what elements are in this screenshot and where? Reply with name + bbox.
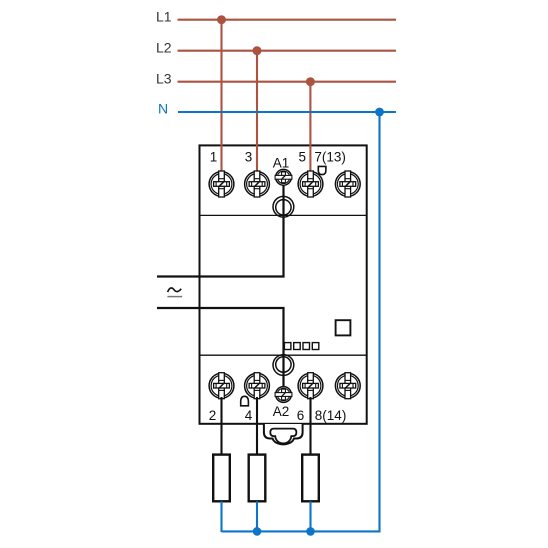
- DIN rail clip: [264, 424, 303, 444]
- wire coil A1: [157, 177, 284, 277]
- wire L1 to terminal 1: [220, 20, 222, 176]
- wire N: [178, 111, 396, 113]
- wire L1: [178, 19, 397, 21]
- load R1: [213, 455, 230, 502]
- wire N down right side to bottom rail: [222, 112, 380, 531]
- terminal A2: [275, 387, 292, 403]
- terminal 3: [245, 171, 270, 197]
- wire L3 to terminal 5: [309, 82, 311, 176]
- terminal 1: [209, 171, 234, 197]
- divider line lower: [200, 354, 367, 356]
- wire L3: [178, 81, 397, 83]
- marker flag top (NO contact symbol): [318, 166, 326, 174]
- wire terminal 4 to load R2: [256, 397, 258, 455]
- svg-text:N: N: [158, 101, 168, 117]
- wire load R2 to N rail: [256, 501, 258, 531]
- terminal 5: [298, 171, 323, 197]
- terminal 4: [245, 373, 270, 399]
- coil circle lower: [273, 355, 294, 376]
- svg-text:A1: A1: [273, 155, 290, 170]
- svg-text:L3: L3: [156, 71, 172, 87]
- coil circle upper: [273, 196, 294, 217]
- svg-text:5: 5: [299, 150, 307, 165]
- terminal 7(13): [335, 171, 360, 197]
- svg-text:6: 6: [297, 408, 305, 423]
- wire L2: [178, 50, 397, 52]
- junction R3 on N rail: [306, 527, 315, 536]
- wire L2 to terminal 3: [256, 51, 258, 176]
- marker flag bottom (NO contact symbol): [241, 396, 249, 406]
- terminal 8(14): [335, 373, 360, 399]
- svg-text:8(14): 8(14): [315, 408, 347, 423]
- wire terminal 2 to load R1: [220, 397, 222, 455]
- svg-text:3: 3: [245, 150, 253, 165]
- switch position window: [336, 320, 351, 335]
- terminal A1: [275, 169, 292, 185]
- junction on L3: [306, 77, 315, 86]
- load R2: [249, 455, 266, 502]
- svg-text:A2: A2: [273, 404, 290, 419]
- svg-text:L2: L2: [156, 40, 172, 56]
- svg-text:4: 4: [245, 408, 253, 423]
- indicator squares: [284, 343, 318, 350]
- AC supply symbol: [167, 288, 182, 297]
- junction on N: [375, 108, 384, 117]
- junction R2 on N rail: [253, 527, 262, 536]
- terminal 2: [209, 373, 234, 399]
- svg-text:7(13): 7(13): [314, 150, 346, 165]
- svg-text:2: 2: [209, 408, 217, 423]
- terminal 6: [298, 373, 323, 399]
- wire terminal 6 to load R3: [309, 397, 311, 455]
- wire load R3 to N rail: [309, 501, 311, 531]
- wire load R1 to N rail: [220, 501, 222, 532]
- junction on L1: [217, 15, 226, 24]
- junction on L2: [253, 46, 262, 55]
- svg-text:L1: L1: [156, 9, 172, 25]
- wire coil A2: [157, 308, 284, 394]
- load R3: [302, 455, 319, 502]
- svg-text:1: 1: [210, 150, 218, 165]
- contactor body K1: [200, 145, 367, 423]
- divider line upper: [200, 214, 367, 216]
